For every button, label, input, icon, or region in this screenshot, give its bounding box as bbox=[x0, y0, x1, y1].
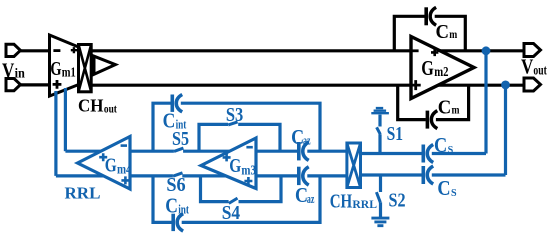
svg-text:S5: S5 bbox=[172, 128, 189, 150]
svg-text:C: C bbox=[434, 133, 447, 157]
svg-text:G: G bbox=[105, 155, 117, 177]
node dot top output bbox=[482, 46, 491, 55]
svg-text:out: out bbox=[533, 63, 547, 78]
svg-text:G: G bbox=[229, 155, 241, 177]
chopper CHRRL bbox=[347, 143, 361, 188]
ground top (S1) bbox=[371, 108, 389, 113]
svg-text:C: C bbox=[436, 21, 450, 43]
switch S3 loop wires bbox=[199, 124, 280, 151]
svg-text:m2: m2 bbox=[434, 65, 448, 80]
op-amp Gm2 minus input mark bbox=[412, 49, 419, 52]
switch S4 loop wires bbox=[201, 176, 282, 202]
switch S5 lever bbox=[174, 148, 183, 151]
svg-text:RRL: RRL bbox=[352, 198, 377, 211]
wire Gm1 aux to top rail (inner) bbox=[64, 88, 67, 151]
node dot bottom output bbox=[501, 81, 510, 90]
wire bottom rail right segments bbox=[361, 173, 506, 176]
wire bottom output (Gm2 to Vout-) bbox=[436, 84, 524, 87]
input terminal Vin- bbox=[6, 79, 20, 91]
chopper CHout bbox=[79, 45, 92, 92]
switch S2 lever bbox=[376, 192, 380, 202]
op-amp Gm4 minus mark bbox=[121, 144, 127, 147]
svg-text:m: m bbox=[452, 103, 460, 117]
op-amp Gm2 plus mark top bbox=[431, 49, 438, 56]
svg-text:in: in bbox=[15, 65, 26, 80]
svg-text:S3: S3 bbox=[226, 104, 243, 126]
switch S4 lever bbox=[229, 198, 238, 203]
svg-text:S1: S1 bbox=[387, 123, 403, 145]
svg-text:m4: m4 bbox=[117, 162, 132, 177]
svg-text:C: C bbox=[437, 176, 450, 200]
svg-text:m: m bbox=[449, 27, 457, 41]
switch S1 lever bbox=[377, 127, 381, 134]
switch S6 lever bbox=[173, 173, 183, 176]
wire bottom main (CHout to Gm2) bbox=[92, 84, 411, 87]
capacitor Caz top bbox=[299, 142, 309, 160]
op-amp Gm2 plus input mark bottom bbox=[411, 80, 421, 90]
op-amp Gm4 body bbox=[78, 137, 131, 190]
op-amp Gm1 output tip triangle bbox=[94, 56, 115, 74]
svg-text:RRL: RRL bbox=[65, 183, 101, 202]
wire top input (Vin+ to Gm1) bbox=[18, 49, 52, 52]
op-amp Gm3 minus mark bbox=[246, 146, 252, 149]
output terminal Vout- bbox=[524, 78, 541, 91]
capacitor Caz bottom bbox=[299, 167, 309, 185]
svg-text:int: int bbox=[178, 203, 189, 217]
op-amp Gm3 body bbox=[201, 138, 256, 189]
svg-text:G: G bbox=[421, 56, 434, 80]
capacitor Cm top loop wires bbox=[394, 16, 465, 51]
svg-text:S: S bbox=[448, 145, 454, 156]
op-amp Gm2 body bbox=[411, 37, 474, 99]
svg-text:CH: CH bbox=[78, 96, 104, 116]
op-amp Gm4 plus mark bottom bbox=[121, 176, 129, 184]
svg-text:m1: m1 bbox=[62, 64, 76, 79]
op-amp Gm3 plus mark left bbox=[223, 153, 231, 161]
wire Cs bottom to output node bbox=[504, 85, 507, 175]
op-amp Gm1 body bbox=[50, 35, 81, 96]
capacitor Cint bottom bbox=[173, 214, 183, 231]
output terminal Vout+ bbox=[524, 44, 541, 57]
input terminal Vin+ bbox=[6, 44, 20, 56]
wire Gm1 aux to bottom rail (outer) bbox=[54, 91, 57, 176]
wire top output (Gm2 to Vout+) bbox=[438, 49, 524, 52]
svg-text:CH: CH bbox=[330, 192, 353, 213]
svg-text:az: az bbox=[303, 134, 311, 148]
wire top main (CHout to Gm2) bbox=[92, 49, 411, 52]
capacitor Cm bottom loop wires bbox=[398, 85, 469, 119]
svg-text:S4: S4 bbox=[222, 202, 240, 224]
wire top rail right segments bbox=[361, 152, 487, 155]
svg-text:S2: S2 bbox=[389, 190, 406, 212]
svg-text:m3: m3 bbox=[241, 163, 256, 178]
ground bottom (S2) bbox=[371, 218, 389, 226]
capacitor Cs bottom bbox=[423, 166, 433, 184]
svg-text:G: G bbox=[50, 58, 61, 80]
svg-text:out: out bbox=[104, 101, 117, 115]
capacitor Cint bottom loop wires bbox=[153, 176, 320, 223]
svg-text:V: V bbox=[2, 58, 15, 82]
capacitor Cs top bbox=[423, 145, 433, 163]
capacitor Cm top bbox=[424, 7, 428, 25]
op-amp Gm4 plus mark left bbox=[99, 153, 107, 161]
svg-text:C: C bbox=[165, 193, 178, 217]
svg-text:S: S bbox=[451, 188, 457, 199]
switch S3 lever bbox=[228, 122, 237, 125]
switch S2 branch wires bbox=[379, 175, 382, 217]
svg-text:V: V bbox=[521, 55, 533, 79]
switch S1 branch wires bbox=[378, 115, 381, 154]
capacitor Cm bottom bbox=[426, 111, 430, 129]
wire bottom rail left segments bbox=[56, 174, 347, 177]
op-amp Gm1 plus output mark bbox=[71, 47, 77, 53]
svg-text:az: az bbox=[307, 192, 315, 206]
svg-text:C: C bbox=[438, 97, 452, 119]
wire bottom input (Vin- to Gm1) bbox=[18, 83, 52, 86]
wire top rail left segments bbox=[65, 150, 347, 153]
wire Cs top to output node bbox=[484, 51, 487, 154]
capacitor Cint top loop wires bbox=[153, 103, 320, 151]
op-amp Gm1 plus input mark bbox=[53, 80, 62, 89]
op-amp Gm1 minus input mark bbox=[53, 49, 60, 52]
svg-text:S6: S6 bbox=[166, 174, 185, 196]
op-amp Gm3 plus mark bottom bbox=[244, 177, 252, 185]
capacitor Cint top bbox=[172, 95, 182, 112]
